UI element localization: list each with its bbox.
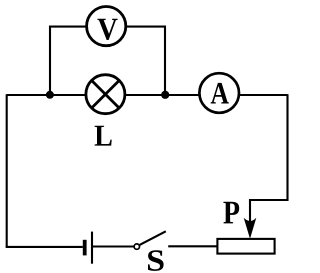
switch S lever xyxy=(140,231,166,245)
wire: main horizontal bus y=95 (lamp/ammeter row) xyxy=(7,94,288,96)
lamp label L xyxy=(95,126,112,146)
wire: voltmeter right branch (down to node B) xyxy=(127,27,165,95)
ammeter A1 circle xyxy=(199,73,239,113)
node A junction dot xyxy=(46,91,54,99)
wire: battery to switch xyxy=(93,245,134,247)
wire: bottom run from left corner to battery xyxy=(6,246,83,248)
wiper label P xyxy=(223,202,239,224)
voltmeter label V xyxy=(98,19,118,40)
switch label S xyxy=(148,250,164,271)
lamp L symbol (circle with X) xyxy=(86,75,125,114)
switch S pivot circle xyxy=(134,244,139,249)
wire: voltmeter left branch (down to node A) xyxy=(50,27,86,95)
battery cell: long thin positive plate xyxy=(91,232,93,264)
voltmeter U1 circle xyxy=(87,7,126,46)
ammeter label A xyxy=(211,83,229,104)
wire: left vertical side xyxy=(6,94,8,247)
battery cell: short thick negative plate xyxy=(83,240,87,256)
rheostat R1 body xyxy=(217,239,274,254)
wire: right vertical side from ammeter down xyxy=(250,94,288,226)
rheostat wiper arrowhead xyxy=(244,218,257,239)
node B junction dot xyxy=(161,91,169,99)
wire: switch to rheostat xyxy=(168,245,217,247)
